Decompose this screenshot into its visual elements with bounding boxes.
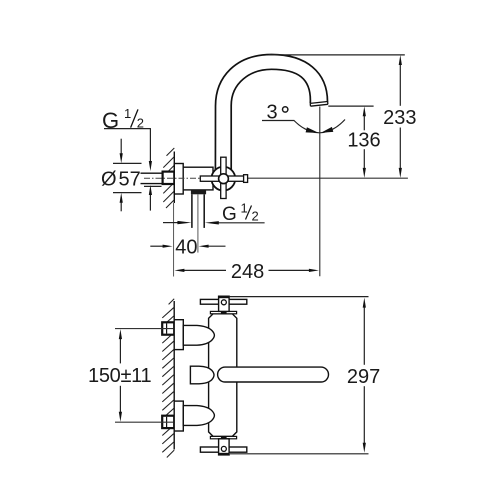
spoke end cap — [244, 175, 248, 183]
escutcheon top union — [174, 320, 183, 350]
dimension D57 extension lines — [113, 139, 142, 212]
outlet pipe — [192, 194, 204, 228]
leader 3 degrees: underline and arc — [262, 120, 345, 133]
dimension D57 text — [101, 168, 141, 190]
trim ring bottom — [210, 436, 236, 438]
label G1/2 (at outlet pipe) — [222, 201, 259, 226]
handle hub top — [219, 296, 230, 311]
outlet pipe centre extension line — [197, 194, 199, 252]
centre axis (dash-dot, left part) — [144, 177, 201, 179]
wall (front view) — [173, 301, 175, 450]
svg-text:297: 297 — [347, 366, 380, 388]
axis / extension line top union (150 dim) — [115, 328, 174, 330]
wall (side view) — [173, 152, 175, 204]
handle bar top — [200, 299, 246, 304]
thread stub G1/2 (left of hex) — [141, 173, 163, 183]
svg-text:G: G — [222, 204, 237, 225]
valve cartridge circle — [211, 167, 235, 191]
hex nut top union — [162, 322, 174, 334]
outlet stub below body — [191, 190, 206, 194]
hex nut bottom union — [162, 416, 174, 428]
svg-text:150±11: 150±11 — [88, 365, 151, 387]
trim ring top — [210, 311, 236, 313]
svg-text:136: 136 — [347, 130, 380, 152]
svg-text:40: 40 — [175, 236, 197, 258]
svg-text:Ø: Ø — [101, 168, 117, 190]
cross-handle vertical spoke — [221, 157, 226, 198]
svg-text:57: 57 — [119, 168, 141, 190]
G1/2 lower left arrow — [163, 222, 178, 224]
handle screw bottom — [221, 446, 226, 451]
spout (gooseneck tube) — [215, 55, 327, 173]
svg-text:1: 1 — [241, 201, 248, 216]
escutcheon bottom union — [174, 401, 183, 431]
S-union cone bottom — [183, 406, 214, 426]
3 degree arc arrowheads — [306, 127, 319, 133]
body (front view) — [209, 314, 237, 437]
diverter knob (left of body) — [190, 366, 214, 384]
centre axis (right part) — [247, 177, 408, 179]
valve body (side view) — [183, 167, 213, 190]
spout tip extension line (vertical) — [319, 107, 321, 277]
nozzle extension line (136) — [328, 105, 373, 107]
handle hub bottom — [219, 439, 230, 455]
cross-handle horizontal spoke — [200, 176, 244, 181]
label G1/2 (upper left) — [102, 106, 144, 133]
leader G1/2 lower: underline with arrow to pipe (right side) — [219, 222, 265, 224]
top tangent extension line (233) — [269, 54, 405, 56]
297 extension lines — [229, 297, 368, 454]
wall hatching (side view) — [163, 148, 174, 208]
wall extension line (below wall) — [173, 203, 175, 277]
handle hub circle — [219, 174, 229, 184]
svg-text:248: 248 — [231, 261, 264, 283]
spout (front view, long pill) — [218, 367, 329, 382]
escutcheon flange (side view) — [174, 164, 183, 195]
svg-text:1: 1 — [124, 106, 131, 121]
spout nozzle with 3 degree tilt — [310, 102, 328, 107]
svg-text:233: 233 — [383, 107, 416, 129]
axis / extension line bottom union (150 dim) — [115, 421, 174, 423]
svg-text:G: G — [102, 108, 119, 133]
S-union cone top — [183, 325, 214, 345]
leader G1/2 upper: underline, drop line and arrows — [104, 129, 162, 211]
wall hatching (front view) — [162, 299, 174, 458]
hex union nut — [163, 172, 175, 184]
handle screw top — [221, 300, 226, 305]
dimension D57 arrows — [120, 153, 123, 163]
svg-text:2: 2 — [252, 209, 259, 224]
handle bar bottom — [200, 447, 246, 452]
